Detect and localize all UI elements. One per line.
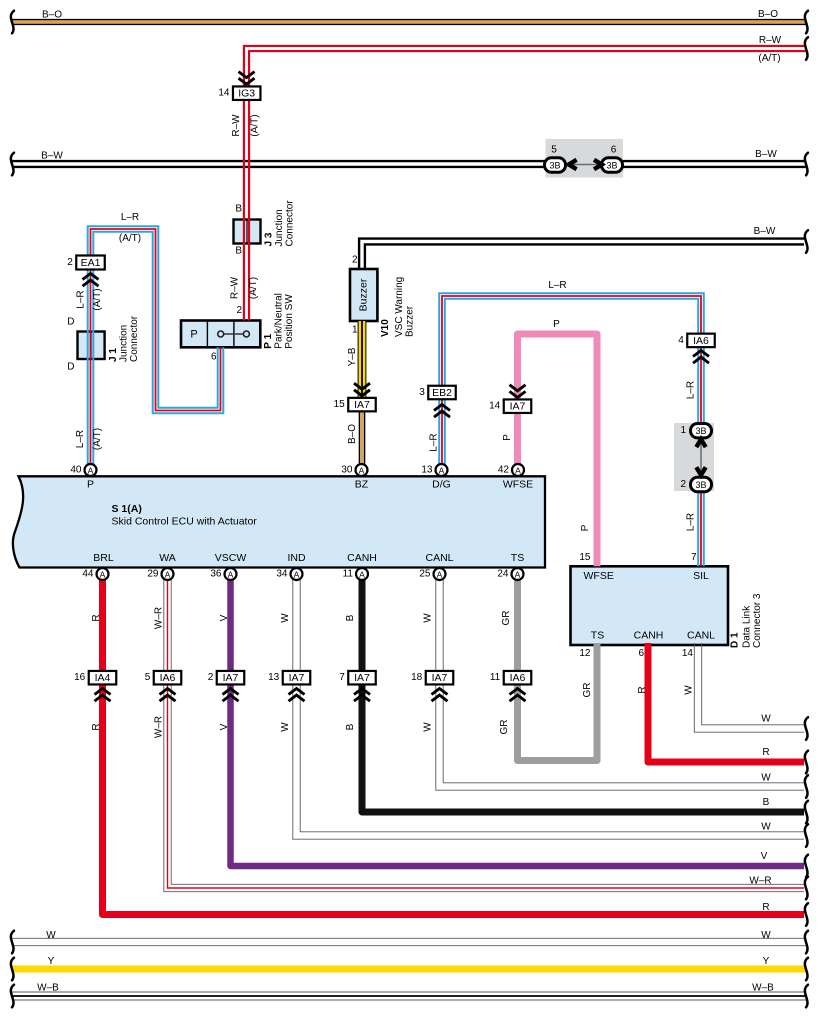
svg-text:R: R	[762, 902, 769, 913]
svg-text:V: V	[761, 851, 768, 862]
svg-text:14: 14	[489, 401, 501, 412]
svg-text:CANL: CANL	[687, 630, 715, 642]
svg-text:IG3: IG3	[238, 88, 255, 100]
svg-text:BZ: BZ	[355, 479, 369, 491]
svg-text:A: A	[88, 466, 94, 476]
svg-text:Y–B: Y–B	[347, 347, 358, 366]
svg-text:W: W	[761, 714, 771, 725]
svg-text:GR: GR	[499, 720, 510, 735]
svg-text:WFSE: WFSE	[503, 479, 533, 491]
svg-text:D: D	[67, 317, 74, 328]
svg-text:B: B	[235, 204, 242, 215]
svg-text:L–R: L–R	[548, 280, 566, 291]
svg-text:W: W	[761, 930, 771, 941]
svg-text:W: W	[761, 773, 771, 784]
svg-text:R–W: R–W	[230, 276, 241, 299]
svg-text:Junction: Junction	[274, 209, 285, 246]
svg-text:7: 7	[339, 672, 345, 683]
svg-text:6: 6	[638, 648, 644, 659]
svg-text:B–O: B–O	[42, 10, 62, 21]
svg-text:12: 12	[579, 648, 591, 659]
svg-text:Park/Neutral: Park/Neutral	[274, 293, 285, 349]
svg-text:V: V	[219, 614, 230, 621]
svg-text:2: 2	[352, 255, 358, 266]
svg-text:40: 40	[70, 465, 82, 476]
svg-text:A: A	[515, 466, 521, 476]
svg-text:Skid Control ECU with Actuator: Skid Control ECU with Actuator	[112, 516, 258, 528]
svg-text:R: R	[91, 723, 102, 730]
svg-text:WA: WA	[159, 552, 176, 564]
svg-text:B: B	[235, 246, 242, 257]
svg-text:Position SW: Position SW	[284, 294, 295, 349]
svg-text:B: B	[763, 797, 770, 808]
svg-text:A: A	[294, 570, 300, 580]
svg-text:(A/T): (A/T)	[92, 428, 103, 450]
svg-text:A: A	[359, 570, 365, 580]
svg-text:S 1(A): S 1(A)	[112, 503, 142, 515]
svg-text:15: 15	[334, 399, 346, 410]
svg-text:16: 16	[74, 672, 86, 683]
svg-text:D 1: D 1	[730, 632, 741, 648]
svg-text:D/G: D/G	[432, 479, 451, 491]
svg-text:7: 7	[691, 552, 697, 563]
svg-text:W–B: W–B	[752, 983, 774, 994]
svg-text:11: 11	[343, 569, 354, 580]
svg-text:18: 18	[411, 672, 423, 683]
svg-text:CANL: CANL	[425, 552, 453, 564]
svg-text:B: B	[345, 723, 356, 730]
svg-text:(A/T): (A/T)	[250, 114, 261, 136]
svg-text:EB2: EB2	[432, 387, 452, 399]
svg-text:25: 25	[419, 569, 431, 580]
svg-text:Data Link: Data Link	[742, 605, 753, 648]
svg-text:P 1: P 1	[263, 333, 274, 348]
svg-text:2: 2	[236, 305, 242, 316]
svg-text:11: 11	[490, 672, 501, 683]
svg-text:13: 13	[421, 465, 433, 476]
svg-text:5: 5	[551, 145, 557, 156]
svg-text:W: W	[46, 930, 56, 941]
svg-text:Connector 3: Connector 3	[752, 593, 763, 648]
svg-text:A: A	[100, 570, 106, 580]
svg-text:J 3: J 3	[264, 232, 275, 246]
svg-text:3B: 3B	[695, 426, 706, 436]
svg-text:WFSE: WFSE	[584, 570, 614, 582]
svg-text:B–O: B–O	[758, 9, 778, 20]
svg-text:W–R: W–R	[154, 607, 165, 629]
svg-text:J 1: J 1	[108, 348, 119, 362]
svg-text:(A/T): (A/T)	[119, 233, 141, 244]
svg-text:IA7: IA7	[432, 672, 448, 684]
svg-text:GR: GR	[582, 683, 593, 698]
svg-text:P: P	[580, 524, 591, 531]
svg-text:B–W: B–W	[41, 151, 63, 162]
svg-text:TS: TS	[511, 552, 524, 564]
svg-text:BRL: BRL	[93, 552, 114, 564]
svg-text:36: 36	[210, 569, 222, 580]
svg-text:W: W	[280, 613, 291, 623]
svg-text:6: 6	[211, 352, 217, 363]
svg-text:P: P	[190, 329, 197, 341]
svg-text:P: P	[502, 434, 513, 441]
svg-text:30: 30	[341, 465, 353, 476]
svg-text:13: 13	[268, 672, 280, 683]
svg-text:IA7: IA7	[510, 401, 526, 413]
svg-text:W: W	[423, 613, 434, 623]
svg-text:IND: IND	[287, 552, 306, 564]
svg-text:B–O: B–O	[347, 424, 358, 444]
svg-text:3B: 3B	[695, 480, 706, 490]
svg-text:Y: Y	[763, 956, 770, 967]
svg-text:IA7: IA7	[354, 672, 370, 684]
svg-text:W: W	[761, 822, 771, 833]
svg-text:A: A	[165, 570, 171, 580]
svg-text:A: A	[228, 570, 234, 580]
svg-text:V10: V10	[380, 319, 391, 337]
svg-text:IA7: IA7	[223, 672, 239, 684]
svg-text:W: W	[280, 722, 291, 732]
svg-text:Junction: Junction	[119, 325, 130, 362]
svg-text:(A/T): (A/T)	[92, 288, 103, 310]
svg-text:L–R: L–R	[76, 290, 87, 308]
svg-text:(A/T): (A/T)	[248, 277, 259, 299]
svg-text:Buzzer: Buzzer	[405, 305, 416, 337]
svg-text:IA6: IA6	[510, 672, 526, 684]
svg-text:L–R: L–R	[686, 381, 697, 399]
svg-text:IA6: IA6	[160, 672, 176, 684]
svg-text:3B: 3B	[549, 161, 560, 171]
svg-text:B–W: B–W	[754, 226, 776, 237]
svg-text:24: 24	[497, 569, 509, 580]
svg-text:GR: GR	[501, 611, 512, 626]
svg-text:Y: Y	[48, 956, 55, 967]
svg-text:IA7: IA7	[289, 672, 305, 684]
svg-text:R: R	[91, 614, 102, 621]
svg-text:L–R: L–R	[686, 513, 697, 531]
svg-text:EA1: EA1	[81, 257, 101, 269]
svg-text:1: 1	[680, 425, 686, 436]
svg-text:L–R: L–R	[429, 433, 440, 451]
svg-text:34: 34	[276, 569, 288, 580]
svg-text:44: 44	[82, 569, 94, 580]
svg-text:1: 1	[352, 325, 358, 336]
svg-text:B–W: B–W	[755, 149, 777, 160]
svg-text:D: D	[67, 362, 74, 373]
svg-text:L–R: L–R	[75, 430, 86, 448]
svg-text:R: R	[637, 686, 648, 693]
svg-text:3: 3	[419, 387, 425, 398]
svg-text:6: 6	[611, 145, 617, 156]
svg-text:CANH: CANH	[634, 630, 664, 642]
svg-text:29: 29	[147, 569, 159, 580]
svg-text:W: W	[423, 722, 434, 732]
svg-text:R–W: R–W	[759, 35, 782, 46]
svg-text:14: 14	[682, 648, 694, 659]
svg-text:W–B: W–B	[37, 983, 59, 994]
svg-text:14: 14	[218, 88, 230, 99]
svg-text:Connector: Connector	[129, 315, 140, 362]
svg-text:IA4: IA4	[95, 672, 111, 684]
svg-text:Buzzer: Buzzer	[358, 278, 370, 311]
svg-text:V: V	[219, 723, 230, 730]
svg-text:TS: TS	[591, 630, 604, 642]
svg-text:L–R: L–R	[121, 212, 139, 223]
svg-text:A: A	[437, 570, 443, 580]
svg-text:SIL: SIL	[693, 570, 709, 582]
svg-text:B: B	[345, 614, 356, 621]
svg-text:R: R	[762, 747, 769, 758]
svg-text:W–R: W–R	[154, 716, 165, 738]
svg-text:A: A	[515, 570, 521, 580]
svg-text:VSCW: VSCW	[215, 552, 247, 564]
svg-text:Connector: Connector	[285, 200, 296, 247]
svg-text:P: P	[87, 479, 94, 491]
svg-text:IA6: IA6	[693, 335, 709, 347]
svg-text:2: 2	[208, 672, 214, 683]
svg-text:A: A	[359, 466, 365, 476]
svg-text:P: P	[553, 319, 560, 330]
svg-text:4: 4	[678, 335, 684, 346]
svg-text:W: W	[684, 685, 695, 695]
svg-text:R–W: R–W	[231, 114, 242, 137]
svg-text:3B: 3B	[606, 161, 617, 171]
svg-text:42: 42	[498, 465, 510, 476]
svg-text:CANH: CANH	[347, 552, 377, 564]
svg-text:IA7: IA7	[354, 399, 370, 411]
svg-text:15: 15	[579, 552, 591, 563]
svg-text:(A/T): (A/T)	[758, 53, 780, 64]
svg-text:W–R: W–R	[749, 876, 771, 887]
svg-text:VSC Warning: VSC Warning	[394, 277, 405, 337]
svg-text:A: A	[439, 466, 445, 476]
svg-text:2: 2	[67, 257, 73, 268]
svg-text:2: 2	[680, 479, 686, 490]
svg-text:5: 5	[145, 672, 151, 683]
